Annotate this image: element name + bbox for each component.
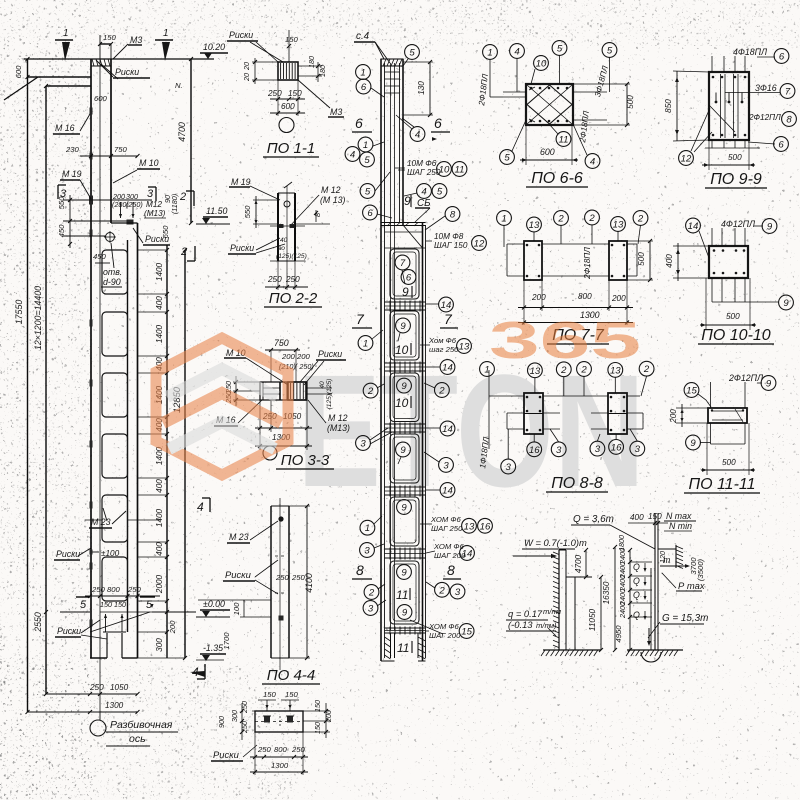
svg-text:1050: 1050 [110, 683, 129, 692]
center column ties narrow part [385, 71, 400, 73]
svg-text:1400: 1400 [155, 508, 164, 527]
wind ground hatch [543, 649, 601, 651]
svg-text:шаг 250: шаг 250 [429, 345, 459, 354]
callouts 4 5 right [417, 184, 432, 199]
head hatch marks [387, 223, 391, 227]
svg-text:(250): (250) [126, 200, 143, 209]
wind arrow [513, 555, 556, 557]
svg-text:500: 500 [637, 252, 646, 266]
svg-text:3: 3 [556, 445, 562, 456]
opening5 callout 9 [397, 500, 412, 515]
svg-text:Q = 3,6т: Q = 3,6т [573, 514, 614, 525]
callout 1 left low [360, 520, 375, 535]
dim 4700 wind [585, 550, 587, 577]
PO 9-9 3F16 bar hooks [715, 93, 717, 102]
PO 8-8 branch rect right [608, 393, 627, 434]
svg-text:10М Ф6: 10М Ф6 [407, 159, 437, 168]
svg-text:1: 1 [360, 67, 365, 78]
svg-text:1: 1 [365, 523, 370, 534]
svg-text:150: 150 [263, 690, 277, 699]
svg-text:W = 0.7(-1.0)т: W = 0.7(-1.0)т [524, 537, 587, 548]
svg-text:11.50: 11.50 [206, 206, 227, 216]
svg-text:13: 13 [613, 219, 624, 230]
svg-text:500: 500 [728, 153, 742, 162]
force ground hatch [627, 649, 683, 651]
svg-text:3: 3 [443, 460, 449, 471]
callout 14 tie3 [440, 421, 455, 436]
column narrow part verticals [90, 59, 92, 658]
svg-text:4: 4 [590, 156, 595, 167]
riski ticks on column left edge [90, 108, 93, 115]
bottom branch hatch right [418, 637, 426, 641]
svg-text:11: 11 [396, 588, 408, 602]
svg-text:±0.00: ±0.00 [203, 599, 225, 609]
svg-text:13: 13 [529, 220, 540, 231]
PO 8-8 callouts bottom [527, 442, 542, 457]
svg-text:11: 11 [397, 641, 409, 655]
PO 4-4 inner dashes [275, 555, 285, 557]
svg-text:10М Ф8: 10М Ф8 [434, 232, 464, 241]
svg-text:(3500): (3500) [696, 558, 705, 581]
svg-text:Р max: Р max [678, 580, 705, 591]
svg-text:1400: 1400 [155, 262, 164, 281]
svg-text:14: 14 [442, 362, 453, 373]
svg-text:250: 250 [291, 745, 306, 754]
svg-text:т/пм): т/пм) [536, 621, 557, 630]
svg-text:(М13): (М13) [327, 423, 350, 433]
svg-text:40: 40 [319, 381, 326, 389]
svg-text:N min: N min [669, 521, 692, 531]
PO 7-7 callouts top [497, 211, 512, 226]
callout 6 left [363, 205, 378, 220]
svg-text:4100: 4100 [304, 573, 314, 593]
PO 4-4 cross-section anchor squares [264, 716, 270, 723]
section PO 6-6 square with diagonals [526, 84, 573, 125]
left column dimension line 12x1200=14400 [45, 86, 47, 694]
section PO 1-1 hatched plate [278, 62, 298, 80]
svg-text:т: т [663, 555, 670, 565]
svg-text:400: 400 [155, 542, 164, 556]
svg-text:ШАГ 200: ШАГ 200 [429, 631, 461, 640]
svg-text:5: 5 [437, 186, 443, 197]
svg-text:6: 6 [778, 139, 784, 150]
svg-text:3: 3 [635, 444, 641, 455]
callout 3 left low [360, 543, 375, 558]
svg-text:9: 9 [401, 502, 407, 513]
callouts 2 2 opening3 [363, 383, 378, 398]
left column top diagonal stray mark [4, 77, 38, 100]
svg-text:10: 10 [439, 164, 450, 175]
svg-text:4: 4 [514, 46, 519, 57]
section flag 1 left [55, 39, 73, 41]
section PO 11-11 rectangle [708, 408, 747, 423]
svg-text:4: 4 [197, 500, 204, 514]
svg-text:(-0.13: (-0.13 [508, 619, 533, 630]
PO 3-3 axis circle [263, 446, 277, 460]
callouts 1 6 top left [356, 65, 371, 80]
svg-text:17550: 17550 [14, 300, 24, 325]
G force arrow [648, 628, 650, 644]
wind load diagram column line [558, 550, 560, 650]
svg-text:8: 8 [450, 209, 456, 220]
svg-text:±100: ±100 [101, 549, 120, 558]
svg-text:200: 200 [531, 293, 546, 302]
svg-text:9: 9 [402, 607, 408, 618]
svg-text:5: 5 [504, 152, 510, 163]
PO 2-2 hole circle [284, 201, 290, 207]
svg-text:8: 8 [447, 562, 455, 578]
svg-text:600: 600 [14, 65, 23, 79]
svg-text:Разбивочная: Разбивочная [110, 719, 173, 731]
svg-text:150: 150 [114, 600, 126, 609]
svg-text:отв.: отв. [103, 267, 122, 277]
svg-text:11: 11 [455, 164, 465, 175]
PO 11-11 callout 9 left [686, 435, 701, 450]
svg-text:150: 150 [100, 600, 112, 609]
watermark hexagon logo orange [156, 338, 288, 475]
svg-text:ПО 10-10: ПО 10-10 [701, 327, 771, 344]
right side tick lines and dim 1400/400 ladder [138, 249, 168, 251]
svg-text:600: 600 [281, 102, 295, 111]
opening4 callout 9 [396, 442, 411, 457]
PO 9-9 extensions below [711, 140, 713, 148]
svg-text:200: 200 [611, 294, 626, 303]
opening6 callout 9 and label 11 [397, 565, 412, 580]
PO 3-3 left dims 250 250 [235, 376, 237, 406]
svg-text:15: 15 [461, 626, 472, 637]
svg-text:3: 3 [595, 444, 601, 455]
svg-text:150: 150 [285, 690, 299, 699]
svg-text:2: 2 [588, 213, 595, 224]
svg-text:ХОМ Ф6: ХОМ Ф6 [433, 542, 464, 551]
svg-text:Риски: Риски [57, 626, 81, 636]
svg-text:q = 0.17: q = 0.17 [508, 608, 543, 619]
svg-text:12: 12 [681, 153, 692, 164]
svg-text:4Ф18ПЛ: 4Ф18ПЛ [733, 47, 768, 57]
PO 3-3 right leader [306, 387, 332, 389]
PO 10-10 dim 400 left [677, 243, 679, 281]
svg-text:9: 9 [690, 438, 696, 449]
section PO 8-8 branch rect left [524, 393, 543, 434]
svg-text:4700: 4700 [574, 554, 583, 573]
PO 7-7 branch rect right [609, 241, 627, 280]
svg-text:16: 16 [529, 445, 540, 456]
svg-text:9: 9 [400, 321, 406, 332]
column openings (left elevation) [102, 250, 128, 294]
callout 3 right [439, 458, 454, 473]
svg-text:Риски: Риски [230, 243, 254, 253]
dim line 1400 400 ladder vertical [166, 245, 168, 658]
svg-text:4700: 4700 [177, 122, 187, 142]
svg-text:G = 15,3т: G = 15,3т [662, 613, 708, 624]
svg-text:550: 550 [243, 205, 252, 219]
svg-text:400: 400 [665, 254, 674, 268]
svg-text:13: 13 [464, 521, 475, 532]
PO 11-11 thin rect above [710, 382, 712, 408]
svg-text:с.4: с.4 [356, 31, 370, 42]
svg-text:3: 3 [364, 545, 370, 556]
svg-text:2: 2 [557, 213, 564, 224]
svg-text:450: 450 [93, 252, 107, 261]
svg-text:800: 800 [274, 745, 288, 754]
column base lines [90, 657, 107, 659]
svg-text:М3: М3 [130, 35, 142, 45]
svg-text:М12: М12 [146, 200, 162, 209]
svg-text:М 10: М 10 [139, 158, 159, 168]
svg-text:ПО 2-2: ПО 2-2 [269, 290, 318, 307]
svg-text:14: 14 [462, 548, 473, 559]
svg-text:d-90: d-90 [103, 277, 121, 287]
svg-text:3: 3 [360, 438, 366, 449]
svg-text:200: 200 [296, 352, 311, 361]
svg-text:400: 400 [630, 513, 644, 522]
svg-text:Риски: Риски [56, 549, 80, 559]
svg-text:ПО 8-8: ПО 8-8 [551, 475, 603, 492]
svg-text:Хом Ф6: Хом Ф6 [428, 336, 457, 345]
svg-text:200: 200 [669, 409, 678, 424]
svg-text:250: 250 [257, 745, 272, 754]
dim 130 right of top [429, 62, 431, 115]
svg-text:1: 1 [501, 213, 506, 224]
svg-text:230: 230 [65, 145, 80, 154]
section PO 2-2 bar [277, 193, 279, 261]
PO 10-10 extensions below [711, 278, 713, 302]
callouts 2 3 right bottom [435, 582, 450, 597]
svg-text:7: 7 [400, 258, 406, 269]
section PO 10-10 rectangle [709, 246, 748, 278]
svg-text:ШАГ 250: ШАГ 250 [407, 168, 441, 177]
svg-text:Q: Q [633, 576, 640, 586]
callout 4 with leaders [410, 127, 425, 142]
svg-text:ПО 1-1: ПО 1-1 [267, 140, 315, 157]
svg-text:Риски: Риски [115, 67, 139, 77]
svg-text:М3: М3 [330, 107, 342, 117]
svg-text:250: 250 [275, 573, 290, 582]
dim 11050 wind [600, 577, 602, 650]
center column base [381, 660, 395, 662]
PO 9-9 stirrup extension above [711, 56, 713, 72]
svg-text:10: 10 [395, 343, 409, 357]
svg-text:8: 8 [356, 562, 364, 578]
PO 7-7 rebar dots [526, 244, 529, 247]
svg-text:650: 650 [161, 225, 170, 239]
svg-text:2: 2 [643, 364, 650, 375]
svg-text:750: 750 [114, 145, 128, 154]
dim line 12850 [184, 250, 186, 658]
svg-text:2Ф12ПЛ: 2Ф12ПЛ [748, 113, 781, 122]
PO 2-2 dim 550 [255, 196, 257, 228]
center column bottom branches [390, 633, 392, 658]
svg-text:3: 3 [147, 188, 154, 200]
column wide part right verticals [137, 223, 139, 658]
svg-text:2: 2 [637, 213, 644, 224]
svg-text:М 19: М 19 [62, 169, 82, 179]
callout cluster 1 4 5 [358, 137, 373, 152]
section PO 9-9 rectangle [709, 72, 749, 140]
PO 6-6 bar extension lines [503, 91, 526, 93]
tick line y221 [63, 220, 130, 222]
svg-text:3Ф16: 3Ф16 [755, 83, 777, 93]
force diagram mast [654, 513, 656, 650]
svg-text:ПО 9-9: ПО 9-9 [710, 171, 762, 188]
svg-text:4Ф12ПЛ: 4Ф12ПЛ [721, 219, 756, 229]
svg-text:1: 1 [487, 47, 492, 58]
callout 1 left mid [358, 336, 373, 351]
svg-text:Риски: Риски [225, 569, 252, 580]
svg-text:Q: Q [633, 610, 640, 620]
svg-text:М 19: М 19 [231, 177, 251, 187]
PO 7-7 longitudinal bar lines [507, 243, 524, 245]
left column elevation - outer dimension line 17550 [27, 59, 29, 712]
tick line y200 [63, 199, 152, 201]
tie zones between openings [385, 301, 426, 303]
svg-text:(М13): (М13) [144, 209, 166, 218]
svg-text:500: 500 [726, 312, 740, 321]
PO 10-10 callout 14 [686, 218, 701, 233]
PO 9-9 inner verticals [720, 74, 722, 138]
svg-text:М 12: М 12 [328, 413, 348, 423]
svg-text:150: 150 [103, 33, 117, 42]
PO 4-4 small square mark [279, 616, 284, 621]
svg-text:Q: Q [633, 562, 640, 572]
svg-text:2: 2 [367, 386, 374, 397]
svg-text:1: 1 [163, 28, 169, 39]
svg-text:250: 250 [240, 701, 249, 714]
svg-text:(125)(125): (125)(125) [276, 253, 307, 260]
svg-text:250: 250 [267, 89, 282, 98]
svg-text:(1180): (1180) [170, 194, 179, 214]
svg-text:20: 20 [242, 62, 251, 71]
PO 4-4 cs right dims [303, 710, 330, 712]
center column top cap hatched [381, 59, 403, 66]
svg-text:10.20: 10.20 [203, 42, 225, 52]
PO 6-6 callout 11 [556, 132, 571, 147]
section cut tick black [127, 220, 134, 225]
svg-text:1700: 1700 [222, 632, 231, 650]
svg-text:5: 5 [607, 45, 613, 56]
wall anchor hatched [675, 545, 677, 568]
svg-text:250: 250 [91, 585, 106, 594]
svg-text:10: 10 [536, 58, 547, 69]
svg-text:750: 750 [274, 338, 289, 348]
svg-text:М 12: М 12 [321, 185, 341, 195]
PO 3-3 hatched square [288, 382, 306, 400]
svg-text:6: 6 [355, 115, 363, 131]
section PO 7-7 branch rect left [524, 241, 542, 280]
column top small hatch [92, 59, 94, 66]
svg-text:Q: Q [633, 590, 640, 600]
center column wide part right edge [422, 222, 424, 661]
svg-text:5: 5 [409, 47, 415, 58]
svg-text:14: 14 [688, 221, 699, 232]
svg-text:12: 12 [474, 238, 485, 249]
svg-text:ПО 3-3: ПО 3-3 [281, 452, 330, 469]
PO 6-6 dim 500 right [626, 84, 628, 125]
svg-text:2Ф12ПЛ: 2Ф12ПЛ [728, 373, 764, 383]
svg-text:13: 13 [459, 341, 470, 352]
svg-text:2Ф18ПЛ: 2Ф18ПЛ [583, 247, 592, 280]
ladder rungs with Q arrows [630, 561, 652, 563]
svg-text:1400: 1400 [155, 324, 164, 343]
svg-text:1300: 1300 [105, 701, 124, 710]
svg-text:ШАГ 150: ШАГ 150 [434, 241, 468, 250]
section PO 4-4 bar elevation [270, 506, 272, 658]
svg-text:6: 6 [779, 51, 785, 62]
svg-text:40: 40 [280, 237, 288, 244]
svg-text:400: 400 [155, 296, 164, 310]
svg-text:250: 250 [267, 275, 282, 284]
svg-text:16: 16 [480, 521, 491, 532]
svg-text:4950: 4950 [614, 625, 623, 643]
svg-text:ХОМ Ф6: ХОМ Ф6 [430, 515, 461, 524]
svg-text:Риски: Риски [229, 30, 253, 40]
svg-text:550: 550 [57, 196, 66, 210]
svg-text:150: 150 [313, 722, 322, 734]
PO 6-6 callout 4 [510, 44, 525, 59]
PO 6-6 callout 5 bottom left [500, 150, 515, 165]
dim 550 450 small column [69, 195, 71, 248]
svg-text:250: 250 [285, 275, 300, 284]
svg-text:180: 180 [318, 65, 327, 77]
wind load step lines [574, 577, 576, 650]
PO 6-6 callout 5 mid [552, 41, 567, 56]
svg-text:450: 450 [57, 224, 66, 238]
svg-text:4: 4 [350, 149, 355, 160]
callout 14 tie4 [440, 483, 455, 498]
svg-text:Риски: Риски [213, 749, 240, 760]
svg-text:9: 9 [783, 298, 789, 309]
PO 10-10 callout 9 bottom [779, 295, 794, 310]
svg-text:3: 3 [455, 587, 461, 598]
svg-text:ПО 6-6: ПО 6-6 [531, 170, 583, 187]
svg-text:200: 200 [281, 352, 296, 361]
svg-text:9: 9 [401, 381, 407, 392]
svg-text:600: 600 [94, 94, 108, 103]
callout 3 left with leaders [356, 436, 371, 451]
diagonal leader bottom [90, 612, 150, 632]
svg-text:1300: 1300 [271, 761, 289, 770]
svg-text:М 23: М 23 [91, 517, 111, 527]
svg-text:20: 20 [242, 73, 251, 82]
svg-text:16: 16 [611, 442, 622, 453]
svg-text:6: 6 [434, 115, 442, 131]
opening3 callout 9 label 10 [397, 378, 412, 393]
PO 2-2 bottom line [270, 260, 305, 262]
svg-text:1: 1 [363, 140, 368, 151]
svg-text:300: 300 [155, 638, 164, 652]
wind load hatch arrows [553, 552, 559, 555]
svg-text:М 16: М 16 [55, 123, 75, 133]
svg-text:7: 7 [785, 86, 791, 97]
center column head transition [381, 222, 426, 224]
PO 2-2 cut ticks [279, 224, 284, 228]
dim line 4700 right of column top [190, 59, 192, 223]
PO 11-11 dim 200 left [681, 404, 683, 427]
svg-text:150: 150 [648, 512, 662, 521]
PO 2-2 top tick [284, 182, 292, 188]
svg-text:9: 9 [401, 567, 407, 578]
svg-text:3: 3 [368, 603, 374, 614]
callout 14 tie1 [439, 297, 454, 312]
bottom notch of column [106, 633, 108, 658]
PO 4-4 cs left dims [252, 710, 255, 712]
PO 4-4 cross-section rectangle [255, 711, 303, 732]
svg-text:-1.35: -1.35 [203, 643, 223, 653]
opening2 callout 9 label 10 [396, 318, 411, 333]
PO 9-9 diagonal inner lines [709, 105, 735, 132]
svg-text:т/пм: т/пм [543, 607, 562, 616]
svg-text:1: 1 [63, 28, 69, 39]
